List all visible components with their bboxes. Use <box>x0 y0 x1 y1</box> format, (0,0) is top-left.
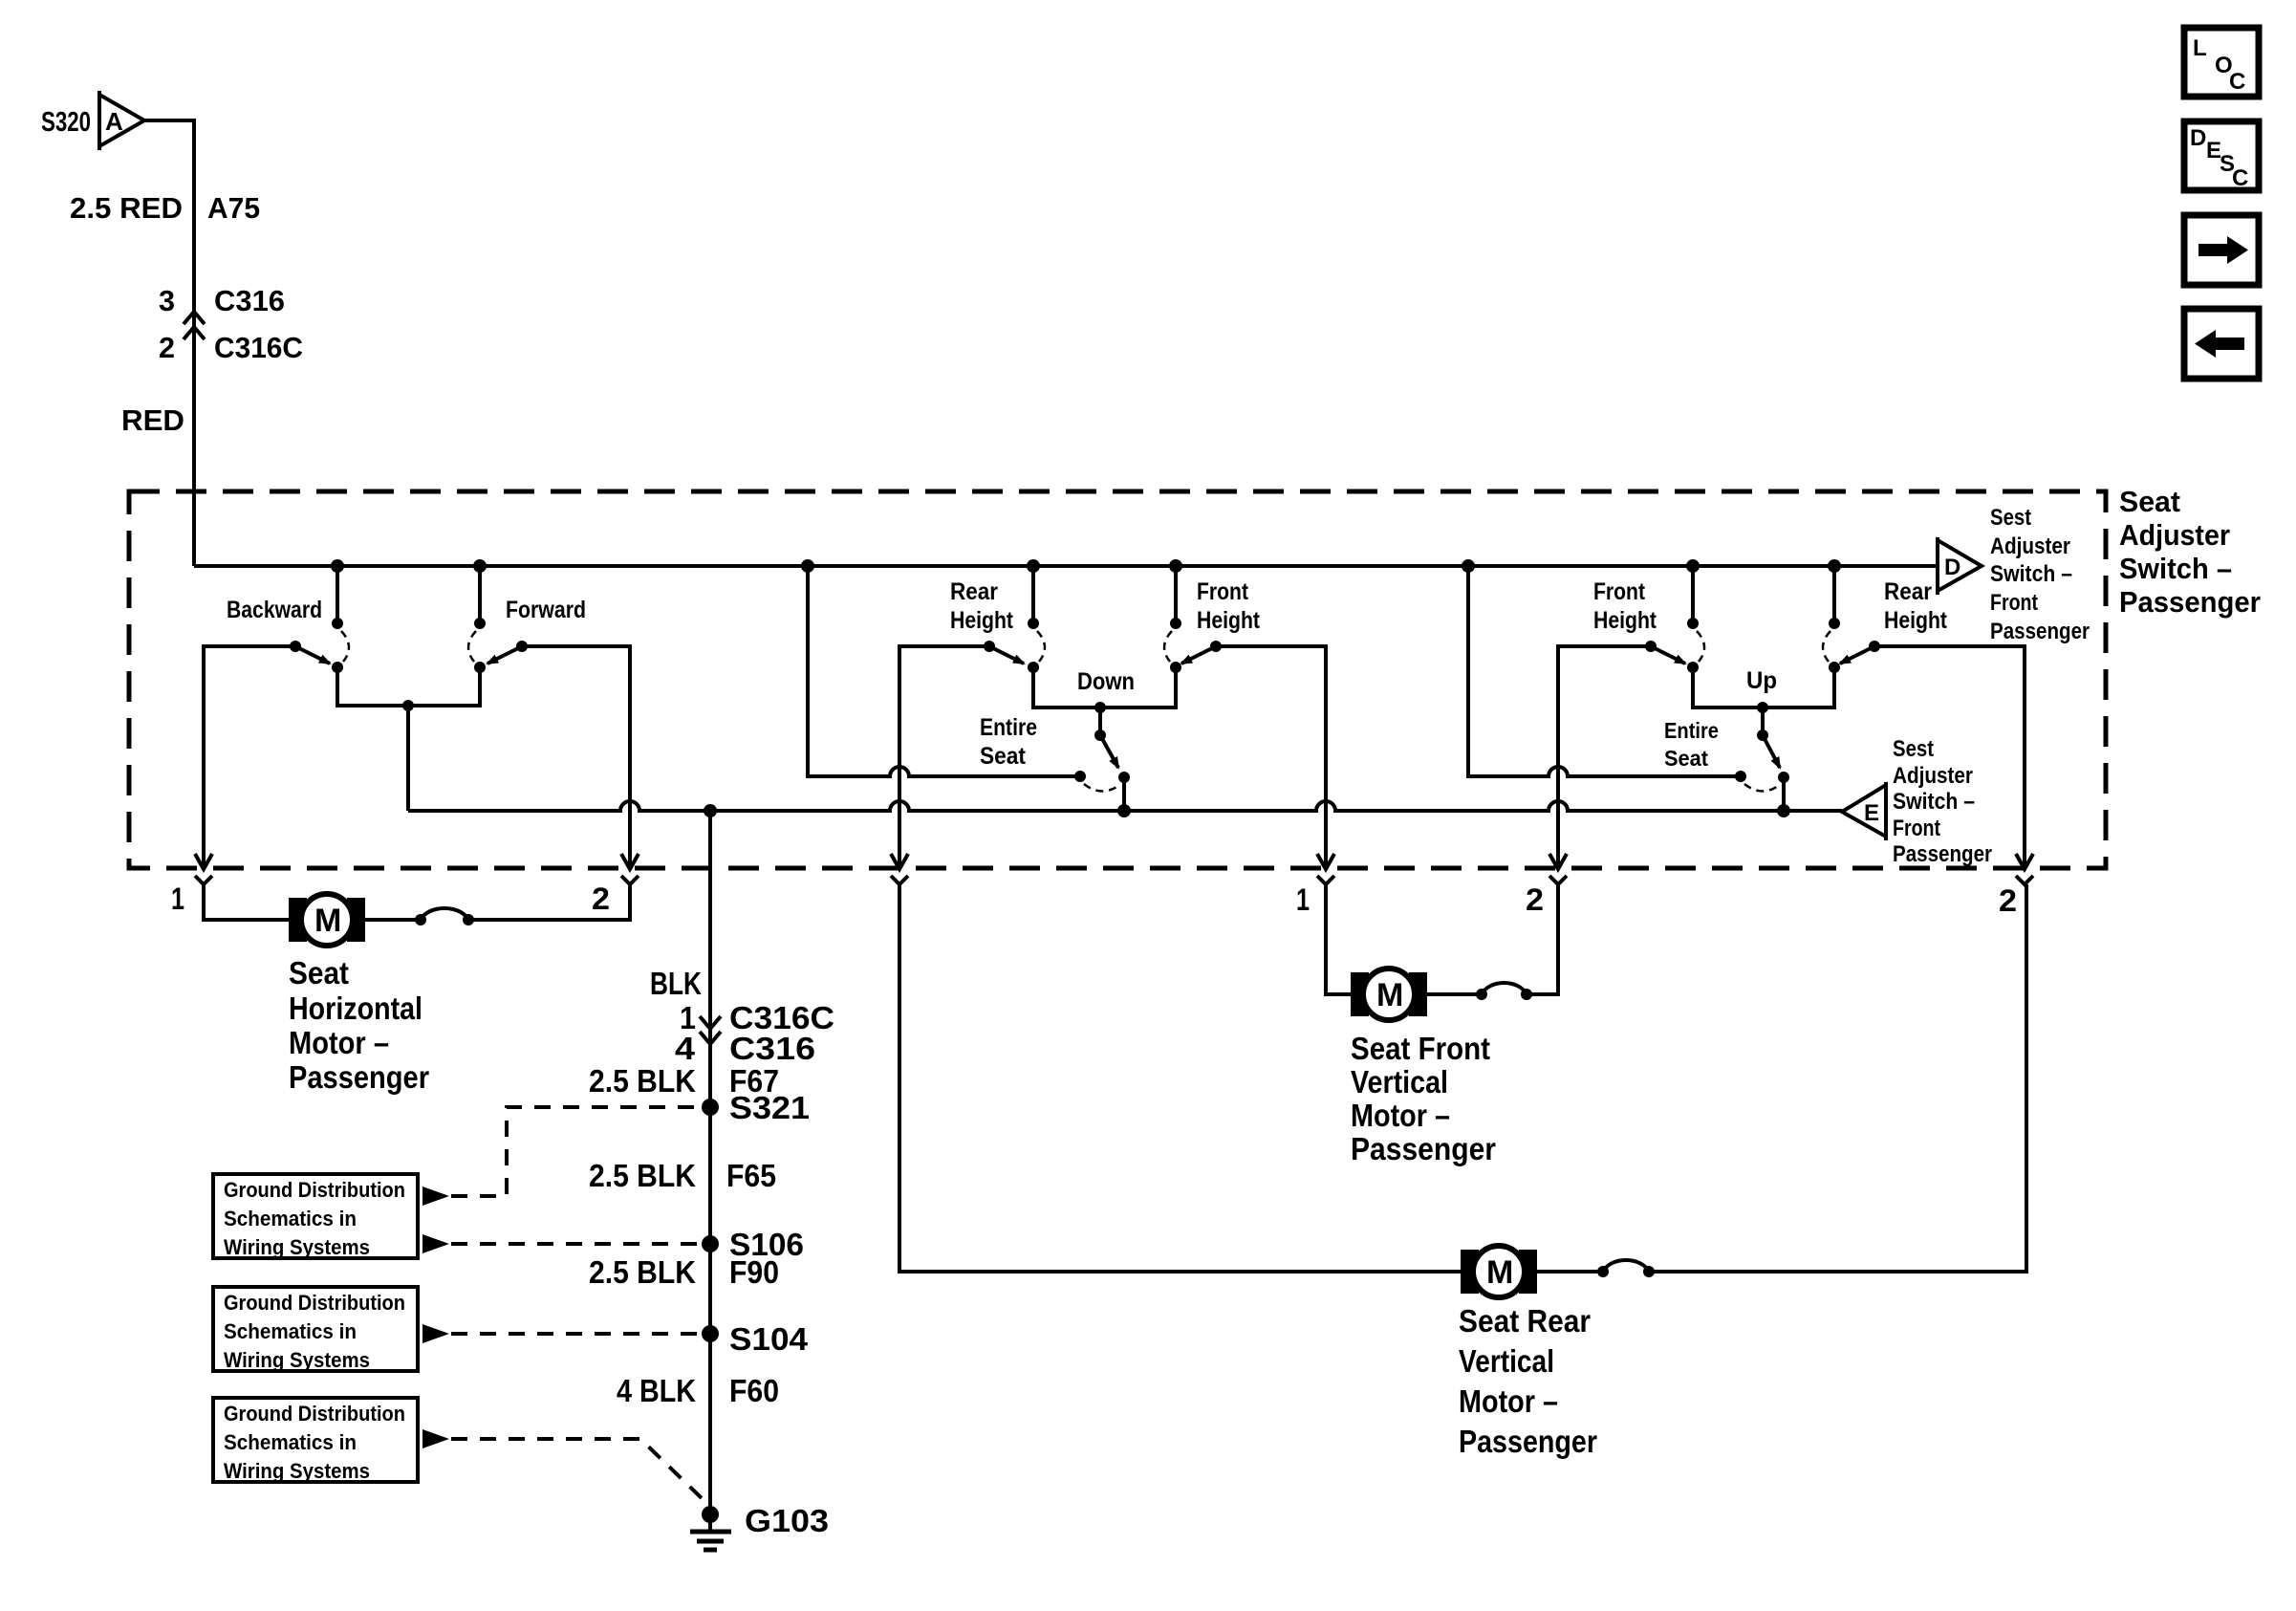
svg-text:Passenger: Passenger <box>1459 1424 1597 1459</box>
dashed boundary: Seat Adjuster Switch assembly <box>129 491 2106 868</box>
svg-text:2.5 BLK: 2.5 BLK <box>589 1063 696 1099</box>
arrow box3 to G103 route <box>422 1429 449 1448</box>
wire Rear Height pivot to pin exit (unnumbered) <box>899 646 989 866</box>
return bus wire (lower) with hops <box>408 801 1842 811</box>
svg-text:Seat Front: Seat Front <box>1351 1031 1490 1066</box>
splice S106 <box>702 1235 719 1252</box>
svg-text:E: E <box>1864 800 1879 826</box>
DESC box <box>2184 121 2259 191</box>
svg-text:Entire: Entire <box>980 714 1037 741</box>
arrow box2 to S104 route <box>422 1324 449 1343</box>
svg-text:C316: C316 <box>214 284 285 317</box>
pin exit (middle rear motor wire) <box>891 854 908 884</box>
label Rear Height (right) <box>1884 578 1948 634</box>
svg-text:2.5 BLK: 2.5 BLK <box>589 1158 696 1193</box>
svg-text:Rear: Rear <box>950 578 998 605</box>
svg-text:3: 3 <box>159 284 175 317</box>
svg-text:Height: Height <box>1593 607 1657 634</box>
svg-text:Seat: Seat <box>289 955 349 991</box>
svg-text:Schematics in: Schematics in <box>224 1207 357 1230</box>
ground wire BLK exit <box>708 811 712 1506</box>
svg-text:Adjuster: Adjuster <box>1990 533 2070 559</box>
wire rear vertical motor loop <box>899 884 1461 1272</box>
node common left <box>402 700 414 711</box>
svg-text:Seat: Seat <box>1664 746 1708 771</box>
ground distribution box 2 <box>213 1287 418 1372</box>
svg-text:Entire: Entire <box>1664 718 1719 743</box>
svg-text:M: M <box>314 903 341 939</box>
bus junction dots <box>331 559 1841 573</box>
svg-text:Passenger: Passenger <box>2119 585 2261 619</box>
node BLK junction <box>704 804 717 817</box>
wire Rear Height pivot to pin 2 (right) <box>1874 646 2025 866</box>
Seat Horizontal Motor M <box>289 894 365 946</box>
svg-text:1: 1 <box>171 882 184 916</box>
svg-text:Wiring Systems: Wiring Systems <box>224 1348 370 1372</box>
Backward switch <box>290 566 349 673</box>
circuit breaker (rear vertical motor) <box>1537 884 2026 1277</box>
svg-text:Switch –: Switch – <box>2119 552 2232 585</box>
svg-text:Motor –: Motor – <box>1459 1383 1558 1419</box>
wire pin1 to front vertical motor <box>1326 884 1352 994</box>
svg-text:Vertical: Vertical <box>1459 1343 1554 1379</box>
svg-text:Adjuster: Adjuster <box>1893 763 1973 789</box>
svg-text:M: M <box>1486 1254 1513 1291</box>
LOC box <box>2184 28 2259 97</box>
svg-text:2: 2 <box>1999 883 2017 918</box>
Front Height switch (middle) <box>1164 566 1222 673</box>
dashed route to S106 <box>451 1242 702 1246</box>
label Sest Adjuster Switch - Front Passenger (D) <box>1990 505 2090 644</box>
svg-text:Sest: Sest <box>1990 505 2031 531</box>
label Seat Adjuster Switch - Passenger <box>2119 485 2261 619</box>
dashed route to S321 <box>451 1107 702 1196</box>
svg-text:BLK: BLK <box>650 966 702 1001</box>
svg-text:4: 4 <box>675 1031 696 1066</box>
wire Front Height pivot to pin 2 (middle group) <box>1558 646 1651 866</box>
svg-text:2.5 BLK: 2.5 BLK <box>589 1254 696 1290</box>
svg-text:Sest: Sest <box>1893 736 1934 762</box>
wire Front Height pivot to pin 1 (middle) <box>1216 646 1326 866</box>
svg-text:Seat Rear: Seat Rear <box>1459 1303 1591 1339</box>
svg-text:Up: Up <box>1746 667 1777 694</box>
node entire-seat right <box>1777 804 1790 817</box>
svg-text:Passenger: Passenger <box>1990 619 2090 644</box>
svg-text:Motor –: Motor – <box>1351 1098 1450 1133</box>
wire common down to return bus <box>406 706 410 811</box>
wire from S320 to switch box (A75 RED feed) <box>144 120 194 566</box>
svg-text:Front: Front <box>1990 590 2038 616</box>
svg-text:2: 2 <box>592 882 610 916</box>
node entire-seat middle <box>1117 804 1131 817</box>
svg-text:Ground Distribution: Ground Distribution <box>224 1291 405 1315</box>
label Seat Rear Vertical Motor - Passenger <box>1459 1303 1597 1459</box>
svg-text:F60: F60 <box>729 1373 779 1408</box>
connector triangle A (S320) <box>99 91 144 150</box>
circuit breaker (front vertical motor) <box>1427 884 1558 1000</box>
svg-text:Schematics in: Schematics in <box>224 1319 357 1343</box>
svg-text:A75: A75 <box>207 191 260 225</box>
svg-text:Switch –: Switch – <box>1990 561 2072 587</box>
Forward switch <box>468 566 528 673</box>
svg-text:D: D <box>1944 555 1960 580</box>
splice S321 <box>702 1099 719 1116</box>
svg-text:Front: Front <box>1893 816 1940 841</box>
svg-text:RED: RED <box>121 403 184 437</box>
next-page arrow box <box>2184 215 2259 285</box>
wire breaker to pin2 <box>468 884 630 920</box>
svg-text:F90: F90 <box>729 1254 779 1290</box>
svg-text:Front: Front <box>1197 578 1249 605</box>
ground distribution box 3 <box>213 1398 418 1483</box>
circuit breaker (horizontal motor) <box>415 908 474 925</box>
svg-text:Passenger: Passenger <box>1351 1131 1496 1166</box>
svg-text:Rear: Rear <box>1884 578 1932 605</box>
svg-text:S321: S321 <box>729 1090 810 1125</box>
svg-text:Seat: Seat <box>2119 485 2180 518</box>
svg-text:Ground Distribution: Ground Distribution <box>224 1178 405 1202</box>
pin 2 right exit <box>1999 854 2033 918</box>
svg-text:Schematics in: Schematics in <box>224 1430 357 1454</box>
prev-page arrow box <box>2184 309 2259 379</box>
svg-text:Switch –: Switch – <box>1893 789 1975 815</box>
Seat Front Vertical Motor M <box>1351 969 1427 1020</box>
inline connector C316/C316C <box>184 312 205 339</box>
svg-text:4 BLK: 4 BLK <box>617 1373 696 1408</box>
arrow box1 to S106 route <box>422 1234 449 1253</box>
dashed route to G103 <box>451 1439 703 1499</box>
supply bus wire inside switch <box>194 564 1938 568</box>
svg-text:2: 2 <box>1526 882 1544 917</box>
wire motor to breaker <box>365 918 421 922</box>
svg-text:Forward: Forward <box>506 597 586 623</box>
Rear Height switch (right) <box>1823 566 1880 673</box>
label Rear Height (middle) <box>950 578 1014 634</box>
svg-text:Backward: Backward <box>227 597 322 623</box>
svg-text:A: A <box>105 107 123 136</box>
ground G103 <box>690 1503 829 1550</box>
pin 1 left exit <box>171 854 212 916</box>
wire pin1 to horizontal motor <box>204 884 289 920</box>
svg-text:Horizontal: Horizontal <box>289 991 422 1026</box>
connector triangle D <box>1938 537 1982 595</box>
pin 1 middle exit <box>1296 854 1334 917</box>
svg-text:C: C <box>2232 165 2248 191</box>
splice S104 <box>702 1325 719 1342</box>
ground distribution box 1 <box>213 1174 418 1259</box>
label Seat Horizontal Motor - Passenger <box>289 955 429 1095</box>
svg-text:Wiring Systems: Wiring Systems <box>224 1235 370 1259</box>
wire down-common U (middle) <box>1033 667 1176 708</box>
wire switched outputs to common <box>337 667 480 706</box>
svg-text:Ground Distribution: Ground Distribution <box>224 1402 405 1426</box>
wire entire-seat feed (middle) <box>808 566 1080 776</box>
svg-text:S320: S320 <box>41 107 91 138</box>
node up common <box>1757 702 1768 713</box>
svg-text:Height: Height <box>1884 607 1948 634</box>
arrow box1 to S321 route <box>422 1186 449 1206</box>
pin 2 left exit <box>592 854 639 916</box>
svg-text:C: C <box>2229 69 2245 95</box>
svg-text:Passenger: Passenger <box>1893 841 1992 867</box>
label Front Height (middle) <box>1197 578 1261 634</box>
Entire Seat switch (right) <box>1735 708 1789 811</box>
svg-text:1: 1 <box>1296 882 1310 917</box>
node down common <box>1094 702 1106 713</box>
svg-text:D: D <box>2190 125 2206 151</box>
svg-text:Down: Down <box>1077 668 1135 695</box>
svg-text:2: 2 <box>159 331 175 364</box>
label Entire Seat (right) <box>1664 718 1719 771</box>
svg-text:Front: Front <box>1593 578 1646 605</box>
svg-text:F65: F65 <box>726 1158 776 1193</box>
svg-text:Height: Height <box>1197 607 1261 634</box>
svg-text:Vertical: Vertical <box>1351 1064 1448 1099</box>
svg-text:S104: S104 <box>729 1321 809 1357</box>
svg-text:Seat: Seat <box>980 743 1027 770</box>
label Front Height (right) <box>1593 578 1657 634</box>
svg-text:Adjuster: Adjuster <box>2119 518 2230 552</box>
label Sest Adjuster Switch - Front Passenger (E) <box>1893 736 1992 867</box>
wire Backward pivot to pin 1 <box>204 646 295 866</box>
svg-text:C316C: C316C <box>214 331 303 364</box>
wire up-common U (right) <box>1693 667 1834 708</box>
svg-text:G103: G103 <box>745 1503 829 1538</box>
label Entire Seat (middle) <box>980 714 1037 770</box>
svg-text:Motor –: Motor – <box>289 1025 389 1060</box>
wire entire-seat feed (right) <box>1468 566 1741 776</box>
svg-text:2.5 RED: 2.5 RED <box>70 191 183 225</box>
svg-text:Passenger: Passenger <box>289 1059 429 1095</box>
svg-text:Wiring Systems: Wiring Systems <box>224 1459 370 1483</box>
Seat Rear Vertical Motor M <box>1461 1246 1537 1297</box>
dashed route to S104 <box>451 1332 702 1336</box>
label Seat Front Vertical Motor - Passenger <box>1351 1031 1496 1166</box>
Entire Seat switch (middle) <box>1074 708 1130 811</box>
connector triangle E <box>1842 782 1886 840</box>
inline connector C316C/C316 (ground) <box>700 1016 721 1044</box>
svg-text:C316: C316 <box>729 1031 815 1066</box>
pin 2 middle exit <box>1526 854 1567 917</box>
svg-text:L: L <box>2193 35 2207 61</box>
Rear Height switch (middle) <box>984 566 1045 673</box>
svg-text:Height: Height <box>950 607 1014 634</box>
svg-text:M: M <box>1376 977 1403 1013</box>
Front Height switch (right) <box>1645 566 1704 673</box>
wire Forward pivot to pin 2 <box>522 646 630 866</box>
